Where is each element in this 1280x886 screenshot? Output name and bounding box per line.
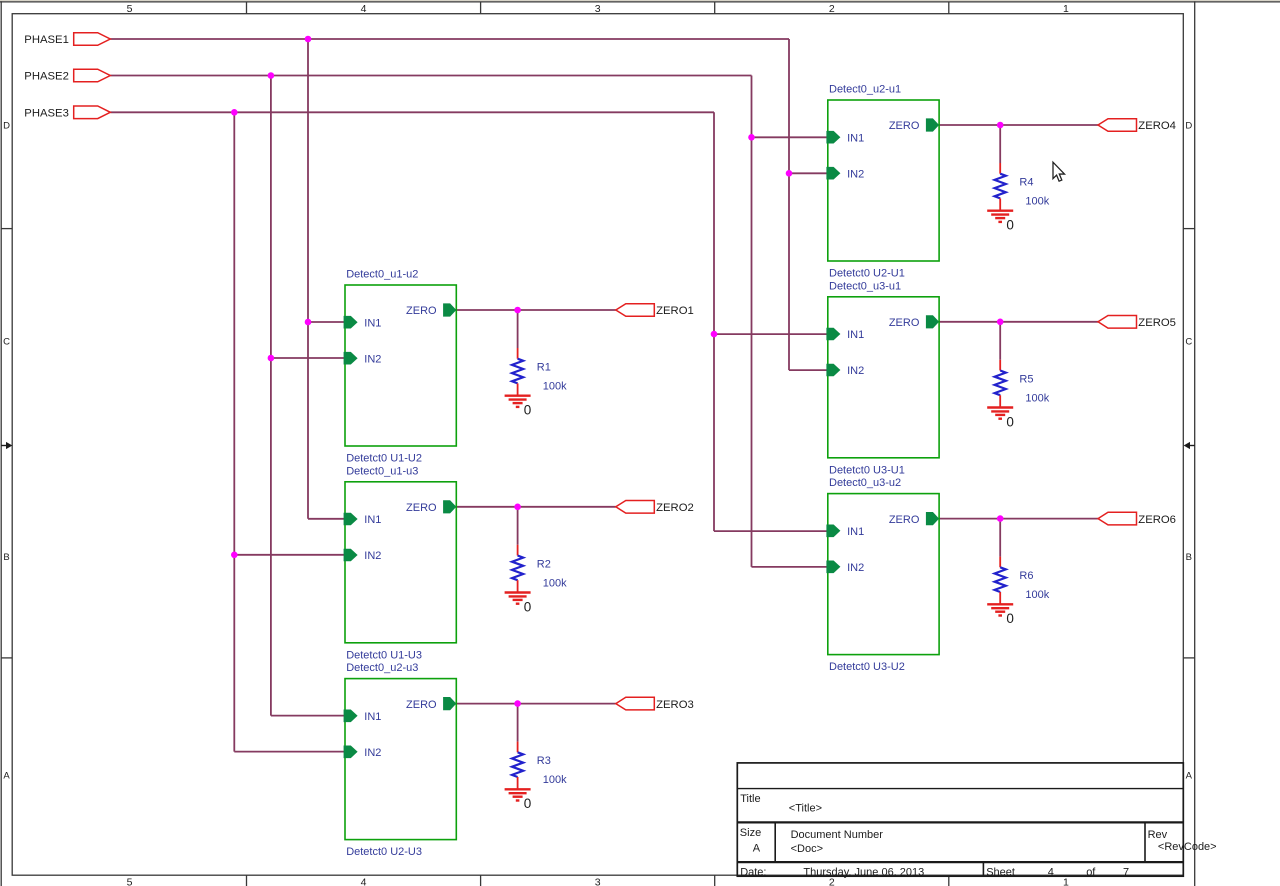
hierarchical block U5 (Detect0_u3-u1) xyxy=(828,280,939,476)
svg-text:IN2: IN2 xyxy=(364,353,381,365)
svg-text:Detect0_u1-u3: Detect0_u1-u3 xyxy=(346,465,418,477)
svg-text:PHASE3: PHASE3 xyxy=(24,108,69,120)
svg-text:R3: R3 xyxy=(537,755,551,767)
svg-text:R5: R5 xyxy=(1019,373,1033,385)
wire R2 tap xyxy=(517,507,519,545)
off-page port ZERO6 xyxy=(1098,512,1176,526)
svg-text:ZERO4: ZERO4 xyxy=(1138,120,1176,132)
svg-text:IN2: IN2 xyxy=(847,365,864,377)
junction ZERO5 node xyxy=(997,319,1004,326)
pin ZERO of U6 xyxy=(889,512,939,526)
svg-text:Detetct0 U3-U2: Detetct0 U3-U2 xyxy=(829,661,905,673)
svg-text:Detetct0 U2-U1: Detetct0 U2-U1 xyxy=(829,268,905,280)
pin ZERO of U2 xyxy=(406,500,456,514)
svg-text:ZERO: ZERO xyxy=(406,305,437,317)
svg-text:IN1: IN1 xyxy=(364,514,381,526)
wire to U2 IN1 xyxy=(308,518,346,520)
off-page port PHASE1 xyxy=(24,33,110,47)
sheet centre marker left xyxy=(1,442,12,449)
wire to U1 IN2 xyxy=(271,357,346,359)
ruler column ticks top xyxy=(247,2,949,14)
svg-text:<RevCode>: <RevCode> xyxy=(1158,841,1217,853)
svg-text:100k: 100k xyxy=(1025,196,1049,208)
off-page port ZERO2 xyxy=(616,501,694,515)
wire ZERO1 net xyxy=(456,309,615,311)
wire PHASE1 vertical right column xyxy=(788,39,790,370)
svg-text:ZERO: ZERO xyxy=(889,514,920,526)
ruler numbers top xyxy=(127,3,1069,15)
svg-text:1: 1 xyxy=(1063,3,1069,15)
title block texts xyxy=(740,793,1217,879)
pin IN2 of U4 xyxy=(826,167,864,181)
junction U1 IN1 xyxy=(305,319,312,326)
resistor R4 100k xyxy=(995,163,1050,211)
ruler letters right xyxy=(1185,121,1192,782)
svg-text:Thursday, June 06, 2013: Thursday, June 06, 2013 xyxy=(803,866,924,878)
svg-text:of: of xyxy=(1086,866,1096,878)
svg-text:ZERO3: ZERO3 xyxy=(656,699,694,711)
svg-text:100k: 100k xyxy=(543,381,567,393)
svg-text:Sheet: Sheet xyxy=(986,866,1015,878)
svg-text:3: 3 xyxy=(595,877,601,886)
wire R3 tap xyxy=(517,704,519,742)
wire R1 tap xyxy=(517,310,519,348)
svg-text:100k: 100k xyxy=(1025,589,1049,601)
junction ZERO3 node xyxy=(514,700,521,707)
hierarchical block U3 (Detect0_u2-u3) xyxy=(345,662,456,858)
off-page port ZERO5 xyxy=(1098,316,1176,330)
svg-text:Detect0_u1-u2: Detect0_u1-u2 xyxy=(346,269,418,281)
svg-text:ZERO6: ZERO6 xyxy=(1138,514,1176,526)
pin ZERO of U1 xyxy=(406,303,456,317)
svg-text:5: 5 xyxy=(127,877,133,886)
junction ZERO4 node xyxy=(997,122,1004,129)
svg-text:Detetct0 U1-U3: Detetct0 U1-U3 xyxy=(346,649,422,661)
pin IN2 of U5 xyxy=(826,364,864,378)
off-page port PHASE3 xyxy=(24,106,110,120)
pin IN1 of U3 xyxy=(344,710,382,724)
svg-text:0: 0 xyxy=(524,403,532,418)
resistor R1 100k xyxy=(512,348,567,396)
wire ZERO3 net xyxy=(456,703,615,705)
wire to U3 IN1 xyxy=(271,715,346,717)
wire to U3 IN2 xyxy=(234,751,346,753)
svg-text:B: B xyxy=(3,552,9,563)
off-page port ZERO4 xyxy=(1098,119,1176,133)
svg-text:Title: Title xyxy=(740,793,760,805)
svg-text:D: D xyxy=(3,121,10,132)
ground 0 at R3 xyxy=(505,789,532,811)
svg-text:2: 2 xyxy=(829,3,835,15)
ruler column ticks bottom xyxy=(247,875,949,886)
svg-text:4: 4 xyxy=(1048,866,1054,878)
svg-text:IN1: IN1 xyxy=(364,317,381,329)
wire PHASE2 vertical right column xyxy=(751,76,753,567)
ruler row ticks right xyxy=(1183,229,1194,658)
hierarchical block U6 (Detect0_u3-u2) xyxy=(828,477,939,673)
svg-text:4: 4 xyxy=(361,3,367,15)
pin IN2 of U2 xyxy=(344,549,382,563)
svg-text:ZERO: ZERO xyxy=(406,502,437,514)
svg-text:C: C xyxy=(3,337,10,348)
wire PHASE3 vertical right column xyxy=(713,112,715,531)
svg-text:B: B xyxy=(1186,552,1192,563)
wire R6 tap xyxy=(999,519,1001,557)
wire to U5 IN2 xyxy=(789,369,829,371)
svg-text:ZERO2: ZERO2 xyxy=(656,502,694,514)
svg-text:R1: R1 xyxy=(537,362,551,374)
off-page port ZERO3 xyxy=(616,697,694,711)
off-page port PHASE2 xyxy=(24,69,110,83)
wire PHASE3 vertical left column xyxy=(233,112,235,751)
svg-text:100k: 100k xyxy=(1025,392,1049,404)
resistor R6 100k xyxy=(995,557,1050,605)
junction U4 IN1 xyxy=(748,134,755,141)
svg-text:100k: 100k xyxy=(543,774,567,786)
svg-text:IN2: IN2 xyxy=(364,550,381,562)
pin IN1 of U2 xyxy=(344,513,382,527)
svg-text:IN2: IN2 xyxy=(364,747,381,759)
mouse cursor xyxy=(1053,162,1064,181)
junction PHASE1 branch xyxy=(305,36,312,43)
svg-text:R4: R4 xyxy=(1019,177,1033,189)
svg-text:IN1: IN1 xyxy=(847,526,864,538)
svg-text:Detetct0 U1-U2: Detetct0 U1-U2 xyxy=(346,453,422,465)
wire to U4 IN2 xyxy=(789,172,829,174)
svg-text:Detetct0 U2-U3: Detetct0 U2-U3 xyxy=(346,846,422,858)
ruler letters left xyxy=(3,121,10,782)
junction ZERO1 node xyxy=(514,307,521,314)
wire to U5 IN1 xyxy=(714,333,829,335)
hierarchical block U4 (Detect0_u2-u1) xyxy=(828,84,939,280)
pin IN2 of U3 xyxy=(344,746,382,760)
wire PHASE3 horizontal xyxy=(110,111,714,113)
svg-text:Rev: Rev xyxy=(1148,829,1168,841)
svg-text:R2: R2 xyxy=(537,558,551,570)
svg-text:Detetct0 U3-U1: Detetct0 U3-U1 xyxy=(829,464,905,476)
junction ZERO2 node xyxy=(514,504,521,511)
svg-text:5: 5 xyxy=(127,3,133,15)
svg-text:Detect0_u3-u2: Detect0_u3-u2 xyxy=(829,477,901,489)
hierarchical block U1 (Detect0_u1-u2) xyxy=(345,269,456,465)
ground 0 at R5 xyxy=(987,408,1014,430)
window top edge strip xyxy=(0,0,1280,1)
wire to U2 IN2 xyxy=(234,554,346,556)
svg-text:IN2: IN2 xyxy=(847,168,864,180)
svg-text:A: A xyxy=(3,771,10,782)
wire to U6 IN2 xyxy=(752,566,829,568)
wire to U4 IN1 xyxy=(752,136,829,138)
wire PHASE1 vertical left column xyxy=(307,39,309,519)
svg-text:Size: Size xyxy=(740,827,761,839)
ground 0 at R1 xyxy=(505,396,532,418)
resistor R3 100k xyxy=(512,742,567,790)
wire R4 tap xyxy=(999,125,1001,163)
svg-text:<Doc>: <Doc> xyxy=(791,843,823,855)
junction PHASE2 branch xyxy=(268,72,275,79)
ground 0 at R4 xyxy=(987,211,1014,233)
svg-text:0: 0 xyxy=(1006,611,1014,626)
pin IN1 of U6 xyxy=(826,525,864,539)
wire ZERO4 net xyxy=(939,124,1098,126)
wire to U1 IN1 xyxy=(308,321,346,323)
svg-text:A: A xyxy=(753,842,761,854)
svg-text:Document Number: Document Number xyxy=(791,829,884,841)
svg-text:R6: R6 xyxy=(1019,570,1033,582)
wire PHASE1 horizontal xyxy=(110,38,789,40)
off-page port ZERO1 xyxy=(616,304,694,318)
svg-text:Date:: Date: xyxy=(740,866,766,878)
junction U4 IN2 xyxy=(786,170,793,177)
svg-text:IN1: IN1 xyxy=(847,132,864,144)
svg-text:PHASE2: PHASE2 xyxy=(24,71,69,83)
svg-text:0: 0 xyxy=(524,796,532,811)
svg-text:100k: 100k xyxy=(543,577,567,589)
svg-text:A: A xyxy=(1186,771,1193,782)
resistor R5 100k xyxy=(995,360,1050,408)
ground 0 at R6 xyxy=(987,604,1014,626)
pin IN1 of U1 xyxy=(344,316,382,330)
svg-text:Detect0_u3-u1: Detect0_u3-u1 xyxy=(829,280,901,292)
junction U2 IN2 xyxy=(231,552,238,559)
junction U5 IN1 xyxy=(711,331,718,338)
svg-text:ZERO1: ZERO1 xyxy=(656,305,694,317)
svg-text:IN2: IN2 xyxy=(847,562,864,574)
svg-text:0: 0 xyxy=(524,599,532,614)
resistor R2 100k xyxy=(512,545,567,593)
svg-text:Detect0_u2-u1: Detect0_u2-u1 xyxy=(829,84,901,96)
svg-text:Detect0_u2-u3: Detect0_u2-u3 xyxy=(346,662,418,674)
svg-text:IN1: IN1 xyxy=(847,329,864,341)
svg-text:ZERO: ZERO xyxy=(889,120,920,132)
svg-text:C: C xyxy=(1185,337,1192,348)
pin ZERO of U3 xyxy=(406,697,456,711)
svg-text:0: 0 xyxy=(1006,218,1014,233)
pin ZERO of U5 xyxy=(889,315,939,329)
pin ZERO of U4 xyxy=(889,118,939,132)
ruler row ticks left xyxy=(1,229,12,658)
wire ZERO5 net xyxy=(939,321,1098,323)
svg-text:ZERO5: ZERO5 xyxy=(1138,317,1176,329)
wire PHASE2 horizontal xyxy=(110,75,751,77)
wire ZERO6 net xyxy=(939,518,1098,520)
wire ZERO2 net xyxy=(456,506,615,508)
svg-text:1: 1 xyxy=(1063,877,1069,886)
svg-text:0: 0 xyxy=(1006,414,1014,429)
svg-text:D: D xyxy=(1185,121,1192,132)
junction PHASE3 branch xyxy=(231,109,238,116)
pin IN1 of U4 xyxy=(826,131,864,145)
junction U1 IN2 xyxy=(268,355,275,362)
svg-text:ZERO: ZERO xyxy=(889,317,920,329)
svg-text:7: 7 xyxy=(1123,866,1129,878)
wire PHASE2 vertical left column xyxy=(270,76,272,716)
pin IN2 of U6 xyxy=(826,561,864,575)
title block xyxy=(737,763,1183,876)
ground 0 at R2 xyxy=(505,593,532,615)
svg-text:4: 4 xyxy=(361,877,367,886)
sheet centre marker right xyxy=(1184,442,1195,449)
svg-text:<Title>: <Title> xyxy=(789,802,822,814)
svg-text:ZERO: ZERO xyxy=(406,699,437,711)
wire R5 tap xyxy=(999,322,1001,360)
ruler numbers bottom xyxy=(127,877,1069,886)
pin IN2 of U1 xyxy=(344,352,382,366)
wire to U6 IN1 xyxy=(714,530,829,532)
svg-text:IN1: IN1 xyxy=(364,711,381,723)
svg-text:3: 3 xyxy=(595,3,601,15)
hierarchical block U2 (Detect0_u1-u3) xyxy=(345,465,456,661)
junction ZERO6 node xyxy=(997,515,1004,522)
svg-text:PHASE1: PHASE1 xyxy=(24,34,69,46)
pin IN1 of U5 xyxy=(826,328,864,342)
